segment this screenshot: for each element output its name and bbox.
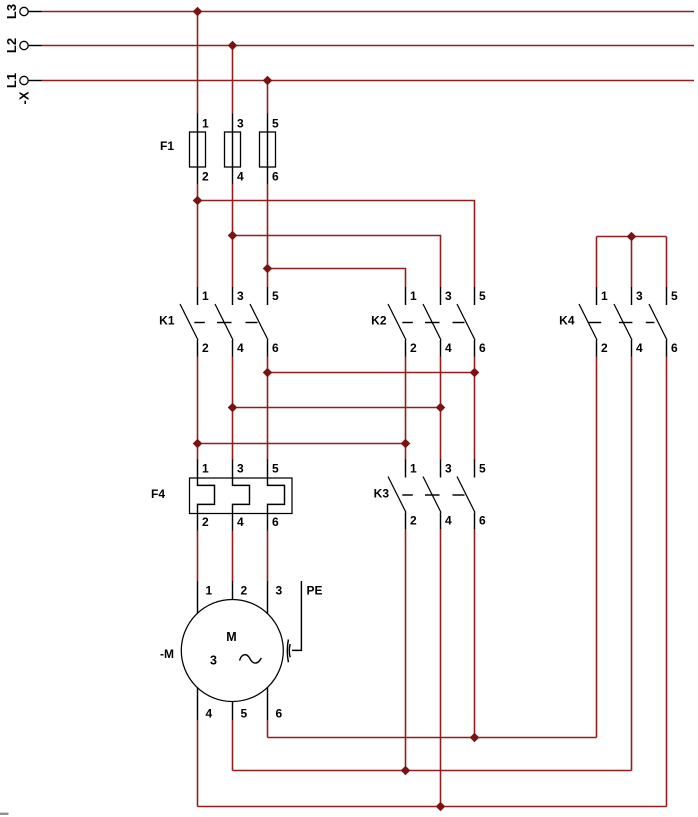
wire branch L1' to K2:1 — [268, 269, 406, 288]
svg-text:PE: PE — [307, 584, 323, 598]
F4 heater element pole 3-4 — [233, 460, 250, 531]
wire K4:4 down — [631, 357, 633, 771]
wire K4:6 down — [666, 357, 668, 807]
wire motor 4 down — [197, 720, 199, 807]
svg-text:-M: -M — [160, 647, 174, 661]
wire bus drop to K4:1 — [596, 237, 598, 288]
svg-text:4: 4 — [445, 514, 452, 528]
wire L3 drop to F1:1 — [197, 12, 199, 114]
svg-text:2: 2 — [410, 341, 417, 355]
contact pole 3-4 — [423, 287, 441, 357]
contactor K2 (3-pole NO main contacts) — [371, 287, 486, 357]
wire L2 drop to F1:3 — [232, 46, 234, 114]
junction K3:6 to rail — [470, 733, 480, 743]
wire K3:4 down — [440, 529, 442, 807]
wire tie K1:4-K2:4 — [233, 407, 441, 409]
svg-text:3: 3 — [237, 462, 244, 476]
svg-text:6: 6 — [671, 341, 678, 355]
motor -M (3~ induction motor) — [160, 581, 283, 721]
wire K4:2 down — [596, 357, 598, 738]
mechanical linkage — [402, 322, 464, 324]
svg-text:1: 1 — [206, 584, 213, 598]
wire L2 rail — [42, 45, 695, 47]
wire bus drop to K4:3 — [631, 237, 633, 288]
wire K4 star bus — [597, 236, 667, 238]
junction star bus tap — [627, 232, 637, 242]
junction K2:4 tie — [436, 403, 446, 413]
svg-text:1: 1 — [202, 289, 209, 303]
svg-text:5: 5 — [479, 289, 486, 303]
wire L3 rail — [42, 11, 695, 13]
svg-text:4: 4 — [636, 341, 643, 355]
wire rail motor6/K3:6/K4:2 — [268, 737, 597, 739]
contactor K1 (3-pole NO main contacts) — [159, 287, 279, 357]
svg-text:6: 6 — [276, 707, 283, 721]
motor lead 2 — [232, 581, 234, 600]
wire K3:6 down — [474, 529, 476, 738]
svg-text:K1: K1 — [159, 314, 175, 328]
mechanical linkage — [194, 322, 257, 324]
PE wire — [292, 581, 301, 650]
terminal L3 — [20, 7, 42, 15]
wire motor 6 down — [267, 720, 269, 738]
contactor K4 (3-pole NO main contacts) — [559, 287, 678, 357]
wire rail motor5/K3:2/K4:4 — [233, 770, 632, 772]
svg-text:4: 4 — [445, 341, 452, 355]
svg-text:K4: K4 — [559, 314, 575, 328]
junction K1:4 tie — [228, 403, 238, 413]
junction tap to K2:1 — [263, 264, 273, 274]
contact pole 3-4 — [614, 287, 632, 357]
contact pole 1-2 — [579, 287, 597, 357]
wire K1:6 down — [267, 357, 269, 461]
junction L1 tap — [263, 76, 273, 86]
wire K2:2 down — [405, 357, 407, 461]
wire F4:6 to motor W1 — [267, 531, 269, 582]
terminal L1 — [20, 76, 42, 84]
contact pole 1-2 — [388, 460, 406, 530]
wire tie K1:2-K2:2 — [198, 443, 406, 445]
wire motor 5 down — [232, 720, 234, 771]
wire bus drop to K4:5 — [666, 237, 668, 288]
contact pole 3-4 — [423, 460, 441, 530]
svg-text:F4: F4 — [151, 487, 165, 501]
F4 heater element pole 5-6 — [268, 460, 285, 531]
scrollbar fragment — [0, 813, 9, 815]
svg-text:3: 3 — [237, 289, 244, 303]
svg-text:4: 4 — [237, 515, 244, 529]
svg-text:-X: -X — [17, 91, 32, 104]
svg-text:3: 3 — [276, 584, 283, 598]
svg-text:3: 3 — [445, 462, 452, 476]
svg-text:L1: L1 — [4, 73, 19, 88]
contact pole 5-6 — [457, 287, 475, 357]
svg-text:5: 5 — [479, 462, 486, 476]
wire rail motor4/K3:4/K4:6 — [198, 806, 667, 808]
overload relay F4 (thermal, 3-pole) — [151, 460, 292, 531]
svg-text:3: 3 — [445, 289, 452, 303]
wire F1:6 to K1:5 — [267, 184, 269, 287]
svg-text:1: 1 — [410, 289, 417, 303]
PE connection to motor frame — [287, 581, 322, 662]
wire K2:4 down — [440, 357, 442, 461]
wire branch L2' to K2:3 — [233, 236, 441, 288]
junction K1:6 tie — [263, 368, 273, 378]
motor lead 1 — [197, 581, 199, 613]
junction K1:2 tie — [193, 439, 203, 449]
svg-text:5: 5 — [272, 289, 279, 303]
motor lead 5 — [232, 702, 234, 721]
fuse element pole 1-2 — [190, 114, 206, 185]
svg-text:L2: L2 — [4, 38, 19, 53]
junction K3:4 to rail — [436, 802, 446, 812]
svg-text:L3: L3 — [4, 4, 19, 19]
svg-text:1: 1 — [202, 462, 209, 476]
svg-text:2: 2 — [202, 170, 209, 184]
motor body — [181, 600, 283, 702]
svg-text:F1: F1 — [160, 139, 174, 153]
contact pole 1-2 — [388, 287, 406, 357]
fuse element pole 3-4 — [225, 114, 241, 185]
contact pole 5-6 — [649, 287, 667, 357]
svg-text:1: 1 — [601, 289, 608, 303]
svg-text:1: 1 — [202, 117, 209, 131]
F4 heater element pole 1-2 — [198, 460, 215, 531]
svg-text:5: 5 — [272, 462, 279, 476]
svg-text:4: 4 — [237, 170, 244, 184]
svg-text:5: 5 — [241, 707, 248, 721]
junction K3:2 to rail — [401, 766, 411, 776]
wire F4:2 to motor U1 — [197, 531, 199, 582]
svg-text:5: 5 — [272, 117, 279, 131]
fuse element pole 5-6 — [260, 114, 276, 185]
svg-text:3: 3 — [210, 654, 217, 668]
junction K2:6 tie — [470, 368, 480, 378]
motor lead 6 — [267, 687, 269, 720]
wire K3:2 down — [405, 529, 407, 771]
wire K2:6 down — [474, 357, 476, 461]
wire L1 rail — [42, 80, 695, 82]
svg-text:2: 2 — [202, 341, 209, 355]
svg-text:2: 2 — [601, 341, 608, 355]
svg-text:2: 2 — [410, 514, 417, 528]
sine symbol — [240, 655, 262, 663]
junction tap to K2:5 — [193, 196, 203, 206]
contactor K3 (3-pole NO main contacts) — [374, 460, 486, 530]
junction L3 tap — [193, 7, 203, 17]
svg-text:3: 3 — [636, 289, 643, 303]
mechanical linkage — [588, 322, 655, 324]
junction tap to K2:3 — [228, 231, 238, 241]
wire tie K1:6-K2:6 — [268, 372, 475, 374]
wire branch L3' to K2:5 — [198, 201, 475, 288]
junction K2:2 tie — [401, 439, 411, 449]
svg-text:5: 5 — [671, 289, 678, 303]
svg-text:6: 6 — [479, 514, 486, 528]
motor lead 3 — [267, 581, 269, 614]
svg-text:2: 2 — [202, 515, 209, 529]
mechanical linkage — [402, 494, 464, 496]
wire F1:2 to K1:1 — [197, 184, 199, 287]
svg-text:3: 3 — [237, 117, 244, 131]
svg-text:6: 6 — [479, 341, 486, 355]
svg-text:6: 6 — [272, 341, 279, 355]
svg-text:K2: K2 — [371, 314, 387, 328]
svg-text:6: 6 — [272, 170, 279, 184]
contact pole 5-6 — [457, 460, 475, 530]
contact pole 3-4 — [215, 287, 233, 357]
contact pole 1-2 — [180, 287, 198, 357]
svg-text:K3: K3 — [374, 487, 390, 501]
svg-text:2: 2 — [241, 584, 248, 598]
wire K1:4 down — [232, 357, 234, 461]
junction L2 tap — [228, 41, 238, 51]
svg-text:4: 4 — [206, 707, 213, 721]
wire L1 drop to F1:5 — [267, 81, 269, 114]
terminal L2 — [20, 41, 42, 49]
svg-text:1: 1 — [410, 462, 417, 476]
svg-text:4: 4 — [237, 341, 244, 355]
PE clamp arcs — [287, 640, 288, 663]
svg-text:M: M — [226, 630, 236, 644]
F4 body — [190, 478, 293, 514]
fuse F1 (3-pole) — [160, 114, 279, 185]
svg-text:6: 6 — [272, 515, 279, 529]
wire F4:4 to motor V1 — [232, 531, 234, 582]
wire F1:4 to K1:3 — [232, 184, 234, 287]
motor lead 4 — [197, 688, 199, 720]
wire K1:2 down — [197, 357, 199, 461]
contact pole 5-6 — [250, 287, 268, 357]
